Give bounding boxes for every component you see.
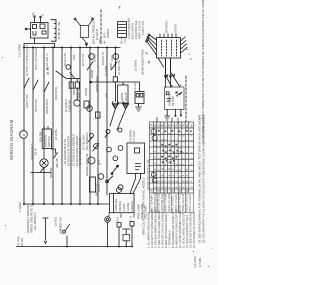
wire M1 right pin fan xyxy=(181,37,188,53)
wires M1 to enclosure xyxy=(166,58,181,87)
bus ground (bottom horizontal) xyxy=(24,203,109,205)
svg-text:8. SOLDERED AND TAPED IN: 8. SOLDERED AND TAPED IN xyxy=(171,212,175,248)
svg-text:4B 1B: 4B 1B xyxy=(46,67,50,75)
lamp L6b xyxy=(93,143,99,151)
enclosure internals xyxy=(166,92,171,101)
connector J3 xyxy=(84,101,89,108)
svg-text:NO: NO xyxy=(191,124,193,128)
svg-text:6V SUP: 6V SUP xyxy=(171,96,175,106)
svg-text:4A: 4A xyxy=(103,40,107,44)
wire W1 (left feeder vertical) xyxy=(23,48,25,205)
svg-text:18 W-BL: 18 W-BL xyxy=(54,129,58,140)
svg-text:TURN SIG: TURN SIG xyxy=(114,199,118,212)
bus lower accessory line xyxy=(17,246,133,248)
svg-text:18 GA BLU-W TRACER: 18 GA BLU-W TRACER xyxy=(66,136,70,166)
junction dots on bottom bus xyxy=(23,203,99,205)
bus B+ (top horizontal feeder) xyxy=(24,47,120,49)
lamp L3b xyxy=(87,106,93,112)
wire W9 xyxy=(97,48,99,205)
svg-text:MOTOR: MOTOR xyxy=(175,24,178,33)
svg-text:STOP SW: STOP SW xyxy=(34,99,38,112)
junction dots on top bus xyxy=(23,47,117,49)
svg-text:PARK LAMP: PARK LAMP xyxy=(137,204,141,219)
svg-text:5. TRACER COLORS SHOWN: 5. TRACER COLORS SHOWN xyxy=(161,212,165,248)
svg-text:T.S. UNIT: T.S. UNIT xyxy=(132,130,136,142)
svg-text:WS WIPER: WS WIPER xyxy=(166,20,169,33)
stray specks xyxy=(2,57,212,267)
notes list bottom xyxy=(147,209,197,248)
table row2 marks xyxy=(158,130,192,132)
notes column right edge xyxy=(198,0,206,243)
svg-text:RELAY: RELAY xyxy=(124,92,128,101)
svg-text:GA: GA xyxy=(165,124,168,128)
svg-text:NO 4SE SEE NOTE 8 FOR: NO 4SE SEE NOTE 8 FOR xyxy=(147,159,150,190)
svg-text:16 BLU: 16 BLU xyxy=(94,53,97,62)
svg-text:WIRING DIAGRAM: WIRING DIAGRAM xyxy=(9,119,14,160)
svg-text:GA: GA xyxy=(154,124,157,128)
svg-text:CO: CO xyxy=(180,124,182,128)
wire jog under ignition xyxy=(31,172,51,174)
svg-text:4SE 2B: 4SE 2B xyxy=(55,158,59,168)
svg-text:L-R: L-R xyxy=(123,38,127,43)
relay K1 labels xyxy=(31,12,45,16)
wire relay to bus xyxy=(24,38,55,47)
svg-text:18 YEL TR: 18 YEL TR xyxy=(82,54,85,66)
bracket to lower bus xyxy=(43,218,48,244)
svg-text:LEVER: LEVER xyxy=(126,203,130,212)
svg-text:64 B464B46: 64 B464B46 xyxy=(158,130,161,188)
lamp L1 xyxy=(111,54,118,82)
svg-text:13. SEE NOTE 6 FOR DETAIL: 13. SEE NOTE 6 FOR DETAIL xyxy=(189,212,193,248)
coil T1 xyxy=(80,25,88,37)
lamp L8 xyxy=(107,147,112,152)
svg-text:DOME: DOME xyxy=(72,86,76,95)
table center data cluster xyxy=(161,144,181,163)
text annotations layer xyxy=(17,5,194,246)
svg-text:TR: TR xyxy=(173,124,175,127)
svg-text:CO: CO xyxy=(169,124,171,128)
svg-text:CONN: CONN xyxy=(84,88,88,96)
turn signal box internal text xyxy=(107,199,148,222)
svg-text:HI-LO: HI-LO xyxy=(133,82,137,90)
wire W11 (lamp drop at bus end) xyxy=(115,48,117,102)
svg-text:TR: TR xyxy=(183,124,185,127)
svg-text:14 W: 14 W xyxy=(111,55,114,61)
svg-text:GRD: GRD xyxy=(176,118,180,124)
lamp L5 xyxy=(98,174,104,180)
drawing number J-2-1150 xyxy=(193,256,202,268)
wire dash panel boundary xyxy=(100,10,102,44)
table circled symbols xyxy=(151,129,157,183)
wire W5 xyxy=(61,48,63,205)
svg-text:GT-4B: GT-4B xyxy=(198,258,202,267)
fuse F2 xyxy=(75,82,79,88)
svg-text:IND: IND xyxy=(132,213,136,218)
dimmer switch S6 xyxy=(63,225,70,247)
svg-text:16 GRN: 16 GRN xyxy=(104,66,108,76)
dimmer relay U2 (HI-LO box) xyxy=(135,92,144,104)
svg-text:CO: CO xyxy=(158,124,160,128)
svg-text:SWITCH: SWITCH xyxy=(118,201,122,212)
horn H1 xyxy=(112,102,118,110)
svg-text:CANCEL: CANCEL xyxy=(130,200,134,211)
junction dots lower bus xyxy=(66,246,133,248)
svg-text:CR: CR xyxy=(152,124,154,128)
beam indicator resistor (dashed) xyxy=(123,229,131,247)
svg-text:GA: GA xyxy=(175,124,178,128)
lamp L4 xyxy=(88,157,95,164)
resistor R1 xyxy=(90,177,96,192)
svg-text:14 BLK-YEL: 14 BLK-YEL xyxy=(117,59,121,75)
svg-text:R.H.: R.H. xyxy=(116,216,120,222)
svg-text:RESIST 7.5: RESIST 7.5 xyxy=(97,177,101,192)
svg-text:4B464B4 6: 4B464B4 6 xyxy=(172,136,175,188)
dash panel boundary right xyxy=(185,76,187,121)
table header text xyxy=(152,124,194,128)
svg-text:16 BLK-W TRACER: 16 BLK-W TRACER xyxy=(35,47,38,70)
svg-text:A: A xyxy=(179,84,183,86)
svg-text:L.H.: L.H. xyxy=(129,215,133,220)
switch S1 on W1 xyxy=(24,78,29,88)
bracket pin labels xyxy=(58,21,61,39)
title WIRING DIAGRAM xyxy=(9,119,14,160)
svg-text:BEAM: BEAM xyxy=(90,69,94,78)
svg-text:3. GROUND WIRES ARE BLACK: 3. GROUND WIRES ARE BLACK xyxy=(154,209,158,248)
relay K1 (horn relay box top-left) xyxy=(25,16,48,38)
svg-text:7. TERMINALS: 7. TERMINALS xyxy=(168,230,172,248)
wire W7 xyxy=(79,48,81,205)
svg-text:2A: 2A xyxy=(145,51,149,55)
svg-text:464B 464B: 464B 464B xyxy=(186,136,189,188)
wire M1 bottom leads xyxy=(158,58,172,87)
switch S4 with lamp on W8 xyxy=(87,54,94,70)
svg-text:9. HARNESS LOOM EXCEPT AS: 9. HARNESS LOOM EXCEPT AS xyxy=(175,209,179,248)
wire horn feed xyxy=(91,82,140,92)
wire M1 left pin fan xyxy=(146,34,157,55)
svg-text:4B1: 4B1 xyxy=(59,31,61,36)
svg-text:(WHEN EQUIPPED): (WHEN EQUIPPED) xyxy=(141,49,145,75)
ground below enclosure xyxy=(165,115,170,121)
svg-text:3 POS: 3 POS xyxy=(122,203,126,211)
lamp L6 xyxy=(89,134,94,142)
svg-text:14. OF WIRING AT JUNCTION: 14. OF WIRING AT JUNCTION xyxy=(192,212,196,248)
svg-text:NO: NO xyxy=(187,124,189,128)
svg-text:6A SPOT LP WHEN EQUIP: 6A SPOT LP WHEN EQUIP xyxy=(26,45,29,76)
svg-text:19. SEE SERVICE MANUAL FOR TER: 19. SEE SERVICE MANUAL FOR TERMINAL DETA… xyxy=(198,115,202,243)
horn relay box xyxy=(118,85,129,103)
switch S2 on W2 xyxy=(33,80,38,90)
svg-text:2. EXCEPT AS NOTED HEREON: 2. EXCEPT AS NOTED HEREON xyxy=(150,209,154,248)
svg-text:16 BLK: 16 BLK xyxy=(54,217,58,226)
legend table xyxy=(150,122,194,213)
svg-text:B4 64RW64: B4 64RW64 xyxy=(165,135,168,188)
turn signal switch SW box xyxy=(110,194,135,213)
wire W10 xyxy=(106,48,108,196)
lamp L2 on W6 xyxy=(66,65,75,79)
svg-text:WIPER: WIPER xyxy=(106,29,110,38)
svg-text:WIRE COLOR CODE CHART FOR ALL: WIRE COLOR CODE CHART FOR ALL MODELS xyxy=(142,177,146,235)
svg-text:HORN BTN: HORN BTN xyxy=(45,99,49,114)
svg-text:D: D xyxy=(41,14,45,16)
component box with V wires xyxy=(74,18,93,47)
ignition switch S5 xyxy=(40,159,48,167)
svg-text:20. COLORS APPLY TO ALL BODY S: 20. COLORS APPLY TO ALL BODY STYLES EXCE… xyxy=(202,113,206,243)
svg-text:6. ARE SECONDARY BANDS: 6. ARE SECONDARY BANDS xyxy=(164,213,168,248)
lamp L3 xyxy=(74,100,80,106)
wiper motor M1 xyxy=(157,34,181,58)
svg-text:6 VOLT SYS: 6 VOLT SYS xyxy=(142,21,145,35)
flasher side label xyxy=(147,159,150,190)
connector J5 xyxy=(130,222,134,247)
svg-text:PARK: PARK xyxy=(109,62,113,70)
svg-text:IND: IND xyxy=(119,213,123,218)
switch enclosure box xyxy=(165,87,185,110)
svg-text:J-2-1150: J-2-1150 xyxy=(193,256,197,268)
svg-text:PARK LP FEED: PARK LP FEED xyxy=(189,194,192,212)
svg-text:16W: 16W xyxy=(73,54,76,60)
svg-text:ALL MODELS: ALL MODELS xyxy=(33,212,37,230)
svg-text:MAP LP: MAP LP xyxy=(77,88,81,98)
svg-text:18 RED-TR: 18 RED-TR xyxy=(64,53,67,66)
ammeter A1 xyxy=(20,131,28,139)
wire horn drops xyxy=(110,109,126,130)
svg-text:IGN SW: IGN SW xyxy=(39,131,43,142)
svg-text:16B: 16B xyxy=(105,93,109,98)
svg-text:4A: 4A xyxy=(118,5,122,9)
lamp L7 xyxy=(105,130,110,138)
ground below U2 xyxy=(136,104,142,112)
table cell marks xyxy=(154,128,193,188)
svg-text:F: F xyxy=(171,84,175,86)
enclosure bottom terminals xyxy=(167,110,181,116)
svg-text:FUSE 9A: FUSE 9A xyxy=(68,100,72,112)
wire relay to bracket xyxy=(51,20,56,42)
lamp L11 xyxy=(118,185,123,190)
wire W8 xyxy=(89,48,91,205)
lamp L10 xyxy=(118,146,123,151)
wire W6 xyxy=(70,48,72,205)
svg-text:16 GA W: 16 GA W xyxy=(95,28,99,40)
svg-text:20A FUSE: 20A FUSE xyxy=(54,87,58,100)
svg-text:4. SEE COLOR CHART ABOVE: 4. SEE COLOR CHART ABOVE xyxy=(157,211,161,248)
svg-text:3B: 3B xyxy=(59,28,61,31)
svg-text:1. ALL WIRES ARE 18 GAUGE: 1. ALL WIRES ARE 18 GAUGE xyxy=(147,212,151,248)
svg-text:DIMMER SW: DIMMER SW xyxy=(59,217,63,234)
svg-text:10. NOTED GROMMETS USED: 10. NOTED GROMMETS USED xyxy=(178,211,182,248)
connector J6 xyxy=(96,112,101,118)
svg-text:GAUGE FEED 18: GAUGE FEED 18 xyxy=(85,153,89,176)
flasher U3 xyxy=(127,143,145,194)
fuse F1 xyxy=(69,82,73,88)
svg-text:18 BRN TR: 18 BRN TR xyxy=(102,52,105,65)
ignition switch box xyxy=(41,127,58,173)
svg-text:ALL MODELS: ALL MODELS xyxy=(85,132,89,150)
lamp L7b xyxy=(118,128,122,132)
svg-text:4B: 4B xyxy=(147,60,151,64)
svg-text:TR: TR xyxy=(162,124,164,127)
svg-text:4A: 4A xyxy=(31,12,35,15)
svg-text:FLASHER: FLASHER xyxy=(129,130,133,142)
lamp L9 xyxy=(113,156,118,161)
svg-text:11. AT ALL PANEL HOLES ON: 11. AT ALL PANEL HOLES ON xyxy=(182,213,186,248)
switch S7 xyxy=(106,176,113,183)
svg-text:W-T: W-T xyxy=(98,159,102,165)
flasher labels xyxy=(129,130,137,142)
table bottom row dashes xyxy=(152,189,189,192)
svg-text:1B: 1B xyxy=(59,36,61,39)
table footer text columns xyxy=(151,192,193,212)
indicator lamp L13 xyxy=(105,217,111,247)
horn H2 xyxy=(123,102,129,110)
svg-text:SWITCH: SWITCH xyxy=(47,136,51,147)
svg-text:12. DASH AND BODY SILLS: 12. DASH AND BODY SILLS xyxy=(185,214,189,248)
svg-text:B4 64B4 64: B4 64B4 64 xyxy=(190,131,193,189)
svg-text:46 4B46B4: 46 4B46B4 xyxy=(176,136,179,188)
table side label xyxy=(142,177,146,235)
svg-text:18 GA: 18 GA xyxy=(20,238,24,246)
fuse F3 xyxy=(111,165,118,174)
svg-text:Y WIRE: Y WIRE xyxy=(18,202,22,212)
svg-text:16 GA W: 16 GA W xyxy=(134,59,138,71)
wire W3 xyxy=(43,48,45,205)
svg-text:4B4 4B4 64: 4B4 4B4 64 xyxy=(183,131,186,189)
switch S3 on W3 xyxy=(44,82,49,92)
lamp L12 xyxy=(117,188,122,193)
svg-text:18 W: 18 W xyxy=(34,148,38,155)
svg-text:24A: 24A xyxy=(58,21,61,26)
wire W4 xyxy=(52,48,54,205)
node T(+) label xyxy=(18,44,22,57)
connector J1 (clock) xyxy=(118,22,127,38)
svg-text:LIGHT SW: LIGHT SW xyxy=(25,94,29,108)
svg-text:HORN FEED: HORN FEED xyxy=(95,76,99,92)
svg-text:T(+) WIRE: T(+) WIRE xyxy=(18,44,22,57)
fuse feed bar xyxy=(56,71,79,100)
connector J4 xyxy=(117,223,121,247)
table entry ticks xyxy=(157,118,172,123)
wire W2 xyxy=(32,48,34,205)
svg-text:IGN SW: IGN SW xyxy=(49,167,53,178)
